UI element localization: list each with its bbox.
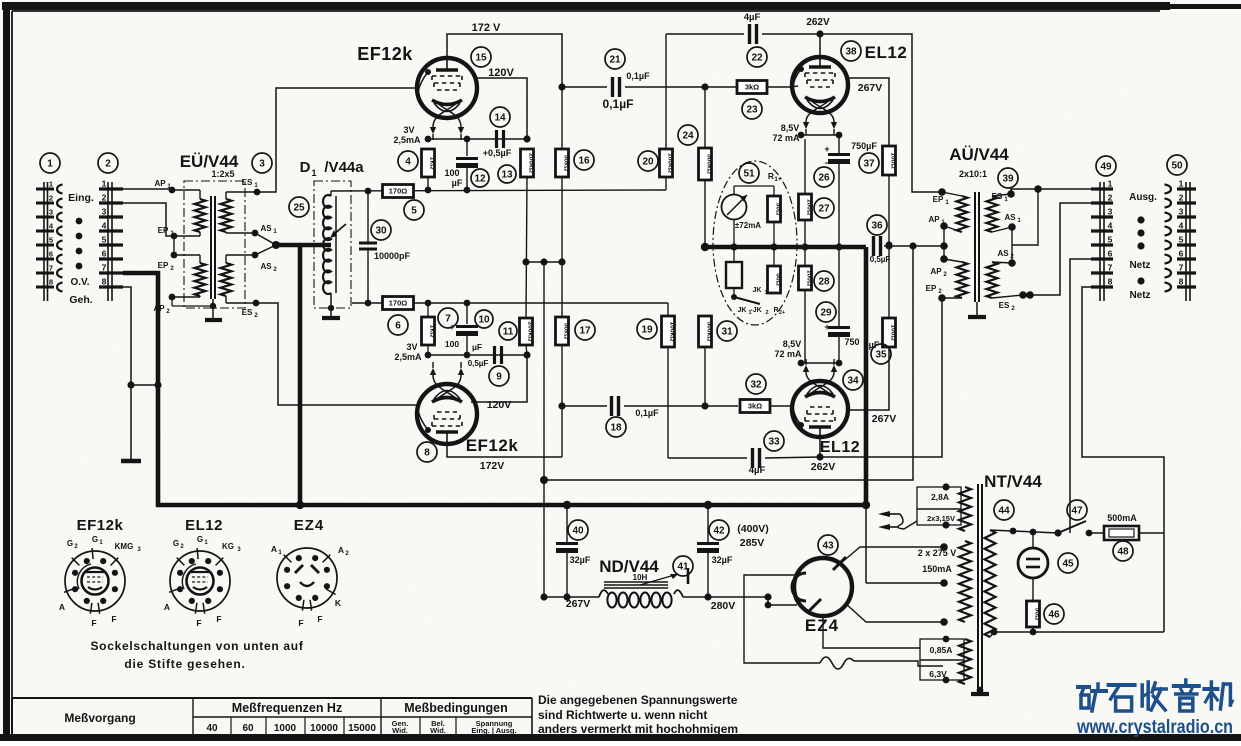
svg-text:µF: µF bbox=[452, 178, 463, 188]
svg-text:500kΩ: 500kΩ bbox=[705, 322, 712, 343]
svg-text:G: G bbox=[197, 535, 203, 544]
terminal AS2 bbox=[225, 255, 227, 263]
svg-text:25: 25 bbox=[293, 203, 305, 214]
circled 33 bbox=[764, 431, 784, 451]
circled 18 bbox=[606, 417, 626, 437]
capacitor C(10) 100µF bbox=[466, 303, 468, 324]
svg-text:Ausg.: Ausg. bbox=[1129, 192, 1157, 203]
svg-text:4µF: 4µF bbox=[749, 465, 766, 476]
svg-text:JK: JK bbox=[738, 307, 747, 314]
junction 172V node bbox=[558, 83, 565, 90]
svg-text:0,1µF: 0,1µF bbox=[626, 71, 650, 81]
D1 tap arrow bbox=[333, 224, 346, 235]
svg-text:1: 1 bbox=[764, 290, 767, 296]
svg-text:4: 4 bbox=[405, 157, 411, 168]
junction x=705 bbox=[701, 83, 708, 90]
svg-text:11: 11 bbox=[503, 327, 514, 338]
circled 3 bbox=[252, 153, 272, 173]
svg-text:7: 7 bbox=[1108, 263, 1113, 273]
NT primary winding top section bbox=[959, 487, 971, 531]
svg-text:AS: AS bbox=[997, 249, 1009, 258]
switch S(47) bbox=[1054, 529, 1061, 536]
wire screen upper EL12 to R37 bbox=[846, 78, 889, 146]
terminal ES2 bbox=[225, 296, 227, 303]
circled 5 bbox=[404, 200, 424, 220]
svg-text:3: 3 bbox=[49, 208, 53, 217]
svg-text:2x10:1: 2x10:1 bbox=[959, 169, 987, 179]
svg-text:+: + bbox=[449, 322, 454, 332]
circled 41 bbox=[673, 556, 693, 576]
svg-text:JK: JK bbox=[753, 287, 762, 294]
svg-text:26: 26 bbox=[818, 173, 830, 184]
border frame bbox=[2, 2, 1170, 10]
resistor R(37) 100Ω bbox=[883, 146, 896, 175]
EÜ/V44 boundary (dash-dot) bbox=[184, 181, 245, 308]
circled 27 bbox=[814, 198, 834, 218]
svg-text:37: 37 bbox=[863, 159, 875, 170]
svg-text:ES: ES bbox=[999, 301, 1010, 310]
svg-text:F: F bbox=[216, 614, 221, 624]
AÜ terminal AP2 bbox=[944, 259, 962, 262]
wire ES2 to connector 49 pin2 bbox=[1023, 203, 1091, 295]
svg-text:2,8A: 2,8A bbox=[931, 492, 949, 502]
svg-text:3kΩ: 3kΩ bbox=[745, 83, 759, 92]
circled 44 bbox=[994, 500, 1014, 520]
svg-text:50Ω: 50Ω bbox=[1033, 608, 1040, 621]
capacitor C(40) 32µF bbox=[563, 501, 571, 509]
AÜ secondary winding upper bbox=[987, 196, 998, 232]
wire EZ4 cathode to 280V rail bbox=[764, 593, 771, 600]
svg-text:100kΩ: 100kΩ bbox=[668, 322, 675, 343]
NT secondary winding (pilot) bbox=[985, 530, 996, 637]
capacitor C(42) 32µF bbox=[704, 501, 712, 509]
svg-text:262V: 262V bbox=[811, 461, 836, 473]
svg-text:2+: 2+ bbox=[779, 310, 785, 316]
svg-text:2,5mA: 2,5mA bbox=[394, 352, 422, 362]
capacitor C(12) 100µF bbox=[466, 139, 468, 156]
svg-text:10000: 10000 bbox=[310, 723, 338, 734]
resistor R2 50Ω in meter insert bbox=[773, 247, 775, 266]
svg-text:6: 6 bbox=[1108, 249, 1113, 259]
AÜ terminal AS1 bbox=[992, 227, 1012, 232]
EZ4 anode plate 2 bbox=[808, 599, 821, 612]
wire R16 to R17 bbox=[561, 177, 563, 317]
svg-text:1000: 1000 bbox=[274, 723, 297, 734]
svg-text:19: 19 bbox=[641, 325, 653, 336]
capacitor C(26) 750µF bbox=[838, 135, 840, 153]
svg-text:48: 48 bbox=[1117, 547, 1129, 558]
svg-text:47: 47 bbox=[1071, 506, 1083, 517]
circled 21 bbox=[605, 49, 625, 69]
svg-text:4: 4 bbox=[1179, 221, 1184, 231]
cathode wire upper bbox=[429, 138, 527, 140]
svg-text:EZ4: EZ4 bbox=[805, 616, 839, 635]
svg-text:1: 1 bbox=[1179, 179, 1184, 189]
svg-text:G: G bbox=[173, 539, 179, 548]
svg-text:AS: AS bbox=[260, 224, 272, 233]
svg-text:AS: AS bbox=[1004, 213, 1016, 222]
circled 19 bbox=[637, 319, 657, 339]
svg-text:F: F bbox=[317, 614, 322, 624]
circled 43 bbox=[818, 535, 838, 555]
choke tap arrow bbox=[640, 574, 678, 585]
circled 48 bbox=[1113, 541, 1133, 561]
EÜ core ground bbox=[210, 303, 216, 309]
svg-text:Die angegebenen Spannungswerte: Die angegebenen Spannungswerte bbox=[538, 693, 738, 707]
svg-text:100kΩ: 100kΩ bbox=[666, 153, 673, 174]
resistor R(28) 100Ω bbox=[804, 247, 806, 266]
svg-text:+0,5µF: +0,5µF bbox=[483, 148, 512, 158]
circled 16 bbox=[574, 150, 594, 170]
wire pin2 to EP1 bbox=[123, 203, 172, 236]
circled 2 bbox=[98, 153, 118, 173]
circled 49 bbox=[1096, 156, 1116, 176]
wire screen lower to R11 node bbox=[471, 355, 527, 402]
circled 35 bbox=[871, 344, 891, 364]
tube EF12k upper (V1) bbox=[417, 58, 477, 118]
svg-text:anders vermerkt mit hochohm: anders vermerkt mit hochohmigem bbox=[538, 722, 738, 736]
svg-text:8: 8 bbox=[49, 278, 53, 287]
resistor R(35) 100Ω bbox=[883, 318, 896, 347]
svg-text:EP: EP bbox=[158, 261, 169, 270]
capacitor C(14) 0,5µF bbox=[495, 130, 498, 148]
AÜ secondary winding lower bbox=[987, 262, 998, 298]
svg-text:EL12: EL12 bbox=[865, 43, 908, 62]
resistor R(5) 170Ω bbox=[383, 185, 414, 198]
svg-text:±72mA: ±72mA bbox=[735, 221, 761, 230]
NT core ground bbox=[979, 690, 981, 694]
circled 8 bbox=[417, 442, 437, 462]
wire cap22 to EL12 anode / EP1 bbox=[762, 34, 942, 192]
svg-text:NT/V44: NT/V44 bbox=[984, 472, 1042, 491]
svg-text:Wid.: Wid. bbox=[392, 726, 408, 735]
capacitor C(29) 750µF bbox=[838, 247, 840, 326]
svg-text:16: 16 bbox=[578, 156, 590, 167]
svg-text:5: 5 bbox=[102, 235, 107, 245]
svg-text:6: 6 bbox=[1179, 249, 1184, 259]
pilot rail top bbox=[990, 530, 1058, 533]
wire thick bus AS junction to D1 tap bbox=[255, 233, 276, 255]
fuse 500mA (48) bbox=[1104, 526, 1139, 540]
EZ4 anode plate 1 bbox=[833, 557, 846, 570]
svg-text:0,1µF: 0,1µF bbox=[635, 408, 659, 418]
resistor R(32) 3kΩ lower bbox=[740, 400, 770, 413]
svg-text:2: 2 bbox=[102, 193, 107, 203]
svg-text:3: 3 bbox=[1179, 207, 1184, 217]
AÜ terminal EP2 bbox=[942, 297, 962, 299]
svg-text:60: 60 bbox=[242, 723, 254, 734]
AÜ terminal ES1 bbox=[992, 194, 1011, 196]
svg-text:1: 1 bbox=[1108, 179, 1113, 189]
svg-text:17: 17 bbox=[579, 326, 591, 337]
D1 coil bbox=[323, 195, 331, 294]
svg-text:KMG: KMG bbox=[115, 542, 134, 551]
svg-text:36: 36 bbox=[871, 221, 883, 232]
wire EZ4 anode2 to 275V bottom tap bbox=[845, 603, 944, 622]
svg-text:50Ω: 50Ω bbox=[774, 203, 781, 216]
svg-text:31: 31 bbox=[721, 327, 733, 338]
wire R13 down bbox=[526, 177, 527, 318]
svg-text:9: 9 bbox=[496, 372, 502, 383]
svg-text:32µF: 32µF bbox=[570, 555, 591, 565]
resistor R(11) 200kΩ bbox=[520, 318, 533, 345]
svg-text:49: 49 bbox=[1100, 162, 1112, 173]
svg-text:A: A bbox=[271, 544, 277, 554]
lamp La(45) bbox=[1032, 532, 1034, 548]
svg-text:AS: AS bbox=[260, 262, 272, 271]
svg-text:EF12k: EF12k bbox=[77, 517, 124, 534]
svg-text:8: 8 bbox=[102, 277, 107, 287]
svg-text:750µF: 750µF bbox=[851, 141, 877, 151]
circled 37 bbox=[859, 153, 879, 173]
svg-text:72 mA: 72 mA bbox=[774, 349, 802, 359]
watermark crystalradio logo (hand-drawn CJK strokes) bbox=[1078, 684, 1106, 711]
svg-text:R: R bbox=[773, 307, 778, 314]
svg-text:14: 14 bbox=[494, 113, 506, 124]
tie wire y=262 bbox=[526, 261, 562, 263]
connector strip 49 bbox=[1099, 182, 1101, 301]
thick bus drop x=866 bbox=[864, 247, 869, 505]
svg-text:2: 2 bbox=[105, 159, 111, 170]
svg-text:A: A bbox=[338, 545, 344, 555]
svg-text:5: 5 bbox=[1108, 235, 1113, 245]
svg-text:Netz: Netz bbox=[1129, 260, 1150, 271]
circled 47 bbox=[1067, 500, 1087, 520]
svg-text:EL12: EL12 bbox=[820, 439, 860, 456]
AÜ primary winding upper bbox=[957, 196, 968, 232]
circled 17 bbox=[575, 320, 595, 340]
junction x=705 lower bbox=[701, 402, 708, 409]
svg-text:40: 40 bbox=[572, 526, 584, 537]
svg-text:4µF: 4µF bbox=[744, 12, 761, 23]
svg-text:0,5µF: 0,5µF bbox=[468, 359, 489, 368]
svg-text:500mA: 500mA bbox=[1107, 513, 1137, 523]
svg-text:39: 39 bbox=[1002, 174, 1014, 185]
tap box 6,3V bbox=[920, 660, 964, 680]
svg-text:Sockelschaltungen von unten: Sockelschaltungen von unten auf bbox=[90, 639, 303, 653]
svg-text:262V: 262V bbox=[806, 17, 830, 28]
marker dots output bbox=[1137, 216, 1144, 223]
wire EZ4 anode1 to 275V top tap bbox=[841, 547, 944, 563]
AÜ core bbox=[974, 192, 976, 302]
circled 30 bbox=[371, 220, 391, 240]
terminal AS1 bbox=[225, 232, 227, 233]
resistor R(6) 170Ω bbox=[383, 297, 414, 310]
wire lower rail y=303 bbox=[352, 302, 668, 304]
svg-text:500kΩ: 500kΩ bbox=[705, 154, 712, 175]
svg-text:AP: AP bbox=[930, 267, 942, 276]
svg-text:24: 24 bbox=[682, 131, 694, 142]
svg-text:EP: EP bbox=[926, 284, 937, 293]
svg-text:EP: EP bbox=[158, 226, 169, 235]
resistor R(31) 500kΩ bbox=[699, 316, 712, 347]
svg-text:Wid.: Wid. bbox=[430, 726, 446, 735]
connector strip 1 (Eing.) bbox=[43, 182, 45, 301]
svg-text:1: 1 bbox=[102, 179, 107, 189]
NT primary winding heater section bbox=[959, 639, 971, 684]
svg-text:280V: 280V bbox=[711, 600, 736, 612]
B+ wire x=544 bbox=[543, 262, 545, 480]
NT primary winding HV section bbox=[959, 541, 971, 622]
circled 45 bbox=[1058, 553, 1078, 573]
svg-text:1: 1 bbox=[47, 159, 53, 170]
wire EZ4 heater top bbox=[744, 575, 820, 663]
svg-text:2,5mA: 2,5mA bbox=[393, 135, 421, 145]
svg-text:285V: 285V bbox=[740, 537, 765, 549]
AÜ terminal AP1 bbox=[944, 226, 962, 232]
svg-text:13: 13 bbox=[501, 170, 513, 181]
svg-text:G: G bbox=[67, 539, 73, 548]
wire cathode rail y=190 bbox=[331, 190, 666, 191]
heater flex squiggle bbox=[820, 657, 854, 669]
wire 4µF anode feedback top y=34 bbox=[666, 33, 744, 35]
terminal AP2 bbox=[199, 296, 201, 297]
svg-text:170Ω: 170Ω bbox=[389, 299, 408, 308]
bus junction dots in meter area bbox=[730, 243, 737, 250]
svg-text:45: 45 bbox=[1062, 559, 1074, 570]
wire EL12 grid upper bbox=[790, 86, 798, 87]
svg-text:15000: 15000 bbox=[348, 723, 376, 734]
wire AS tie to pin1 node bbox=[1012, 189, 1038, 245]
chassis ground under connector bbox=[130, 385, 132, 461]
EÜ secondary winding lower bbox=[221, 263, 232, 296]
svg-text:Meßvorgang: Meßvorgang bbox=[64, 711, 135, 725]
circled 10 bbox=[475, 310, 493, 328]
svg-text:51: 51 bbox=[743, 169, 755, 180]
svg-text:1+: 1+ bbox=[774, 176, 782, 183]
resistor R(19) 100kΩ bbox=[667, 303, 669, 316]
svg-text:F: F bbox=[111, 614, 116, 624]
svg-text:267V: 267V bbox=[872, 413, 897, 425]
EÜ core bbox=[210, 196, 212, 299]
cathode wire lower EL12 bbox=[801, 362, 839, 364]
circled 31 bbox=[717, 321, 737, 341]
svg-text:KG: KG bbox=[222, 542, 234, 551]
svg-text:29: 29 bbox=[820, 308, 832, 319]
svg-text:120V: 120V bbox=[488, 67, 514, 79]
socket EF12k bbox=[65, 551, 125, 611]
circled 11 bbox=[499, 322, 517, 340]
svg-text:3V: 3V bbox=[403, 125, 414, 135]
svg-text:7: 7 bbox=[102, 263, 107, 273]
svg-text:ND/V44: ND/V44 bbox=[599, 557, 659, 576]
svg-text:-JK: -JK bbox=[750, 307, 761, 314]
svg-text:32: 32 bbox=[750, 380, 762, 391]
svg-text:Netz: Netz bbox=[1129, 290, 1150, 301]
wire pin8 to fuse bbox=[1082, 287, 1164, 533]
svg-text:7: 7 bbox=[1179, 263, 1184, 273]
svg-text:2: 2 bbox=[765, 310, 768, 316]
svg-text:267V: 267V bbox=[858, 82, 883, 94]
tube EL12 lower (V4, flipped) bbox=[792, 381, 848, 437]
wire AP2 stub bbox=[171, 297, 173, 306]
svg-text:8,5V: 8,5V bbox=[783, 339, 802, 349]
wire ES1 to EF12k grid bbox=[257, 88, 418, 192]
svg-text:200kΩ: 200kΩ bbox=[527, 153, 534, 174]
circled 42 bbox=[709, 520, 729, 540]
EZ4 cathode arc bbox=[792, 573, 806, 601]
wire ES1 to connector 49 pin1 bbox=[1011, 189, 1091, 194]
circled 51 bbox=[739, 163, 759, 183]
AÜ primary winding lower bbox=[957, 262, 968, 298]
NT core bbox=[977, 484, 979, 690]
circled 24 bbox=[678, 125, 698, 145]
svg-text:AP: AP bbox=[154, 179, 166, 188]
svg-text:20: 20 bbox=[642, 157, 654, 168]
tap box 0,85A bbox=[920, 639, 964, 660]
svg-text:40: 40 bbox=[206, 723, 218, 734]
svg-text:EZ4: EZ4 bbox=[294, 517, 325, 534]
socket EL12 bbox=[170, 551, 230, 611]
svg-text:23: 23 bbox=[746, 105, 758, 116]
EÜ primary winding upper bbox=[195, 199, 206, 232]
AÜ terminal EP1 bbox=[942, 192, 962, 196]
resistor R(16) 50kΩ bbox=[561, 87, 563, 149]
junction pin8/bus tie bbox=[127, 381, 134, 388]
svg-text:EL12: EL12 bbox=[185, 517, 223, 534]
svg-text:R: R bbox=[768, 171, 774, 181]
wire ES2 to lower EF12k grid bbox=[256, 303, 417, 405]
choke core lines bbox=[604, 584, 668, 586]
capacitor C(33) 4µF bbox=[668, 457, 747, 459]
svg-text:50kΩ: 50kΩ bbox=[562, 155, 569, 172]
svg-text:D: D bbox=[300, 159, 311, 176]
wire pin8 to chassis ground bbox=[123, 287, 131, 385]
marker dot netz bbox=[1137, 277, 1144, 284]
meter boundary ellipse (dash-dot) bbox=[713, 161, 797, 325]
circled 40 bbox=[568, 520, 588, 540]
terminal AP1 bbox=[199, 190, 201, 199]
svg-text:2 x 275 V: 2 x 275 V bbox=[918, 548, 957, 558]
svg-text:3kΩ: 3kΩ bbox=[748, 402, 762, 411]
svg-text:0,5µF: 0,5µF bbox=[870, 255, 891, 264]
AÜ terminal AS2 bbox=[992, 262, 1012, 263]
circled 25 bbox=[289, 197, 309, 217]
circled 23 bbox=[742, 99, 762, 119]
svg-text:ES: ES bbox=[992, 192, 1003, 201]
svg-text:27: 27 bbox=[818, 204, 830, 215]
circled 6 bbox=[388, 315, 408, 335]
svg-text:4: 4 bbox=[1108, 221, 1113, 231]
svg-text:EF12k: EF12k bbox=[466, 436, 519, 455]
wire heater to 6,3V tap bbox=[854, 661, 943, 666]
svg-text:42: 42 bbox=[713, 526, 725, 537]
svg-text:100: 100 bbox=[444, 168, 459, 178]
svg-text:18: 18 bbox=[610, 423, 622, 434]
svg-text:www.crystalradio.cn: www.crystalradio.cn bbox=[1076, 717, 1233, 738]
circled 29 bbox=[816, 302, 836, 322]
svg-text:1: 1 bbox=[49, 180, 53, 189]
svg-text:50: 50 bbox=[1171, 161, 1183, 172]
wire EZ4 bottom heater to 0,85A box bbox=[823, 616, 920, 648]
svg-text:3: 3 bbox=[259, 159, 265, 170]
svg-text:6: 6 bbox=[102, 249, 107, 259]
svg-text:(400V): (400V) bbox=[737, 523, 769, 535]
svg-text:30: 30 bbox=[375, 226, 387, 237]
svg-text:0,85A: 0,85A bbox=[930, 645, 953, 655]
svg-text:38: 38 bbox=[845, 47, 857, 58]
svg-text:150mA: 150mA bbox=[922, 564, 952, 574]
capacitor C(22) 4µF bbox=[748, 24, 751, 44]
svg-text:100Ω: 100Ω bbox=[805, 199, 812, 216]
svg-text:1kΩ: 1kΩ bbox=[428, 325, 435, 338]
resistor R(17) 50kΩ bbox=[556, 317, 569, 345]
resistor R(20) 100kΩ bbox=[665, 177, 667, 190]
svg-text:Eing. | Ausg.: Eing. | Ausg. bbox=[471, 726, 516, 735]
resistor R(13) 200kΩ bbox=[521, 149, 534, 177]
circled 15 bbox=[471, 47, 491, 67]
svg-text:43: 43 bbox=[822, 541, 834, 552]
